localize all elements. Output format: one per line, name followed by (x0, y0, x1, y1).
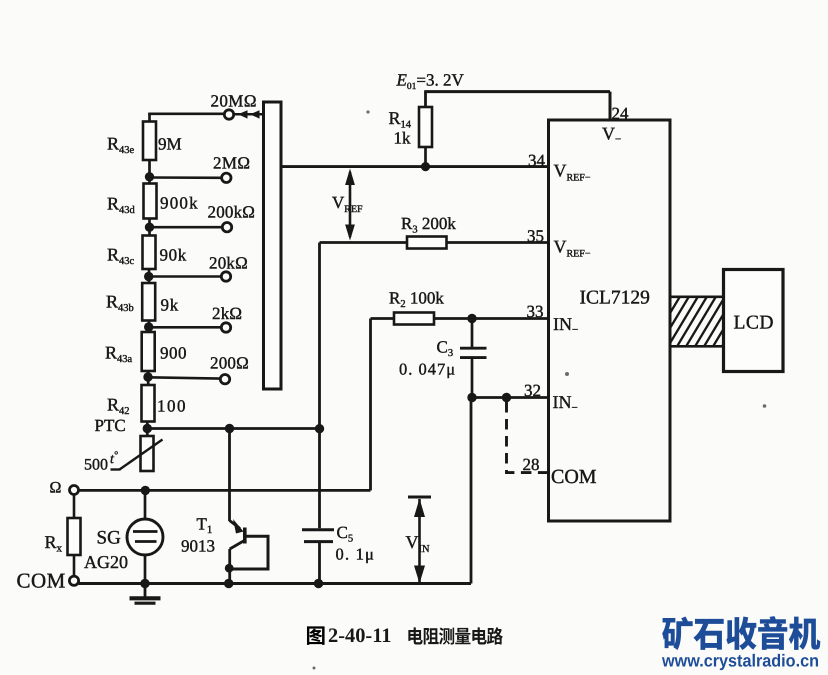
resistor R42 100 (142, 385, 155, 422)
node R3/C5 junction (315, 424, 324, 433)
svg-text:E01=3. 2V: E01=3. 2V (396, 71, 465, 93)
svg-text:R3 200k: R3 200k (401, 214, 456, 236)
svg-text:9M: 9M (158, 135, 182, 154)
svg-text:2kΩ: 2kΩ (212, 304, 242, 323)
resistor R43c 90k (143, 236, 156, 270)
svg-text:100: 100 (157, 397, 187, 416)
svg-text:33: 33 (527, 302, 544, 321)
speckle marks (313, 110, 767, 669)
capacitor C5 0.1µ (302, 429, 334, 584)
ground (130, 584, 161, 604)
surge arrester SG AG20 (127, 490, 163, 583)
svg-text:28: 28 (523, 455, 540, 474)
terminal 20kΩ tap (221, 272, 230, 281)
node chain-3 (144, 269, 153, 283)
ribbon hatch (650, 297, 752, 347)
node C5-bottom (314, 579, 323, 588)
svg-text:9k: 9k (161, 296, 180, 315)
wire PTC-node (147, 427, 319, 430)
resistor Rx (68, 495, 81, 577)
svg-text:Ω: Ω (50, 480, 62, 497)
svg-text:900: 900 (160, 344, 187, 363)
svg-text:24: 24 (612, 104, 630, 123)
resistor R14 1k (419, 107, 432, 167)
svg-text:20kΩ: 20kΩ (209, 254, 248, 273)
resistor R43b 9k (142, 283, 155, 321)
node SG/PTC junction (141, 486, 150, 495)
thermistor PTC 500 (111, 436, 163, 471)
node chain-1 (145, 160, 154, 184)
svg-text:R2 100k: R2 100k (389, 289, 444, 311)
svg-text:ICL7129: ICL7129 (580, 288, 650, 309)
svg-text:0. 1μ: 0. 1μ (336, 545, 376, 564)
node SG-bottom (140, 579, 149, 588)
terminal 2MΩ tap (222, 173, 231, 182)
svg-text:9013: 9013 (181, 537, 215, 556)
wiper contact arrows (234, 110, 263, 118)
svg-text:COM: COM (17, 569, 66, 593)
wire ground-rail (79, 398, 471, 584)
resistor R43d 900k (144, 184, 157, 219)
svg-text:34: 34 (528, 151, 546, 170)
wire tap 200Ω (148, 377, 220, 378)
svg-text:LCD: LCD (734, 313, 775, 334)
svg-text:COM: COM (551, 466, 597, 488)
wire T1-collector (228, 429, 231, 522)
op-amp U1 ICL7129 (549, 120, 671, 521)
svg-text:35: 35 (527, 227, 544, 246)
transistor T1 9013 (225, 519, 268, 584)
terminal Ω (70, 486, 79, 495)
svg-text:500: 500 (84, 457, 108, 474)
resistor R43a 900 (142, 332, 155, 371)
node C3-top (467, 314, 476, 323)
node T1-emitter-rail (224, 579, 233, 588)
resistor R3 200k (320, 237, 549, 249)
node pin32-a (467, 393, 476, 402)
terminal COM (69, 576, 78, 585)
node pin32-b (502, 393, 511, 402)
svg-text:2MΩ: 2MΩ (213, 154, 250, 173)
svg-text:PTC: PTC (95, 416, 126, 435)
display LCD (724, 270, 784, 372)
arrow VREF (345, 169, 355, 241)
svg-text:SG: SG (97, 528, 122, 549)
svg-text:www.crystalradio.cn: www.crystalradio.cn (661, 651, 819, 671)
terminal 2kΩ tap (221, 323, 230, 332)
node chain-2 (145, 219, 154, 236)
capacitor C3 0.047µ (460, 319, 487, 398)
wire E-supply (424, 92, 610, 120)
caption title (408, 627, 503, 644)
node chain-4 (144, 321, 153, 333)
node T1-collector junction (225, 424, 234, 433)
caption figure number (307, 626, 325, 644)
terminal 200Ω tap (220, 375, 229, 384)
wire VREF+ pin34 (281, 165, 549, 168)
wire tap 2MΩ (150, 176, 222, 179)
terminal 200kΩ tap (222, 223, 231, 232)
wire R3-left vertical (318, 243, 321, 429)
wire IN+ pin32 (472, 396, 549, 399)
svg-text:0. 047μ: 0. 047μ (399, 360, 456, 379)
svg-text:1k: 1k (394, 129, 412, 148)
wire tap 20kΩ (149, 275, 221, 278)
svg-text:90k: 90k (160, 246, 187, 265)
terminal 20MΩ tap (224, 110, 233, 119)
resistor R2 100k (371, 313, 549, 325)
arrow VIN (408, 497, 431, 584)
range switch bar SW (264, 102, 282, 389)
svg-text:AG20: AG20 (84, 552, 128, 572)
svg-text:2-40-11: 2-40-11 (328, 625, 392, 647)
wire tap 2kΩ (149, 326, 221, 329)
svg-text:20MΩ: 20MΩ (211, 92, 257, 111)
wire dashed COM link (507, 402, 548, 473)
svg-text:200kΩ: 200kΩ (208, 203, 256, 222)
svg-text:200Ω: 200Ω (210, 354, 249, 373)
wire Ω-rail (79, 319, 371, 491)
node PTC-top (143, 422, 152, 437)
node R14-bottom (421, 162, 430, 171)
wire chain-top (148, 114, 224, 122)
resistor R43e 9M (143, 122, 156, 161)
wire tap 200kΩ (150, 226, 223, 229)
svg-text:900k: 900k (160, 194, 199, 213)
svg-text:32: 32 (524, 381, 541, 400)
watermark logo (662, 616, 820, 650)
node chain-5 (143, 371, 152, 385)
